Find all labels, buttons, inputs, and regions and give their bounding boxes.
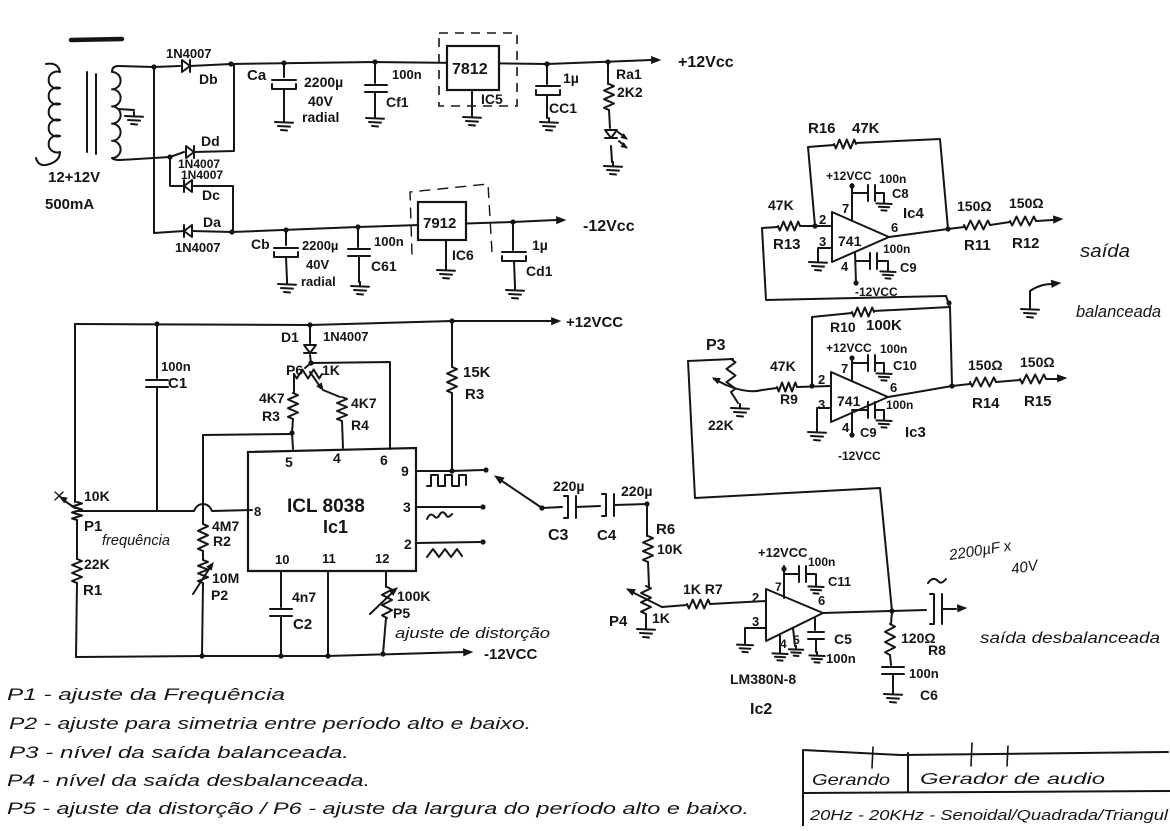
node +12 Ic2 [781, 566, 786, 571]
svg-text:P4: P4 [609, 613, 628, 630]
pin12 label [375, 551, 389, 566]
svg-text:IC6: IC6 [452, 247, 474, 263]
svg-text:-12VCC: -12VCC [484, 646, 538, 663]
capacitor C9 (Ic4) [870, 253, 877, 269]
label LM380N-8 [730, 671, 796, 687]
wire Da to -node [192, 231, 232, 232]
wire R1 to rail [76, 583, 77, 657]
svg-text:-12VCC: -12VCC [838, 449, 881, 463]
ground Cf1 [366, 114, 384, 127]
label 7812 [452, 61, 488, 78]
node +12 Ic3 [849, 355, 854, 360]
label 100n (C9) [883, 242, 910, 256]
label +12VCC (Ic3) [826, 341, 872, 355]
svg-text:C2: C2 [293, 616, 312, 633]
node contact sine [480, 504, 485, 509]
label P1 [84, 518, 102, 535]
wire pin7 +12 (Ic4) [851, 184, 853, 221]
label 1K (P4) [652, 610, 670, 626]
note line P1 [7, 685, 285, 704]
svg-text:40V: 40V [306, 257, 329, 272]
svg-text:P5 - ajuste da distorção / P: P5 - ajuste da distorção / P6 - ajuste d… [7, 799, 749, 818]
svg-text:P5: P5 [393, 605, 410, 621]
diode Db [182, 60, 190, 72]
label R10 [830, 319, 856, 335]
svg-text:R4: R4 [351, 417, 369, 433]
capacitor C1 [146, 324, 168, 511]
label 220u (C4) [621, 483, 652, 499]
label C3 [548, 527, 569, 544]
resistor R3b 15K [447, 321, 457, 471]
wire P4 to ground [645, 614, 647, 625]
resistor R1 [72, 559, 82, 583]
svg-text:4: 4 [841, 259, 849, 274]
label 1N4007 (Db) [166, 46, 212, 61]
svg-text:100K: 100K [397, 588, 430, 604]
arrow +12VCC osc [552, 318, 560, 325]
svg-text:15K: 15K [463, 364, 491, 381]
svg-text:2200µ: 2200µ [304, 74, 343, 90]
svg-text:R15: R15 [1024, 393, 1052, 410]
triangle glyph [427, 549, 462, 557]
svg-text:R14: R14 [972, 395, 1000, 412]
label 2K2 [617, 84, 643, 100]
svg-text:Cd1: Cd1 [526, 263, 553, 279]
label 100n (C6) [909, 666, 939, 681]
switch lever [495, 476, 542, 508]
wire P2 to rail [202, 583, 203, 656]
label 7912 [423, 215, 456, 232]
label 1N4007 (Da) [175, 240, 221, 255]
pin6 label (Ic2) [818, 593, 825, 608]
wire pin9 to contact [452, 470, 483, 471]
svg-text:P3: P3 [706, 337, 726, 354]
label 100n (C10) [880, 342, 907, 356]
svg-text:7: 7 [842, 201, 849, 216]
svg-text:100n: 100n [879, 172, 906, 186]
capacitor C61 [348, 227, 370, 282]
resistor R3a 4K7 [288, 393, 298, 419]
wire pin9 [416, 470, 452, 472]
wire pin4 -12 (Ic4) [855, 252, 856, 283]
svg-text:Cb: Cb [251, 236, 270, 252]
wire to Dd [170, 152, 184, 157]
resistor R9 [777, 383, 797, 392]
resistor R14 [952, 378, 1020, 387]
potentiometer P4 [627, 586, 662, 614]
wire to C10 [852, 362, 868, 364]
wire down left column [153, 67, 155, 233]
svg-text:4K7: 4K7 [259, 390, 285, 406]
svg-text:100n: 100n [909, 666, 939, 681]
ground pin3 Ic3 [808, 428, 826, 441]
wire P1 wiper to pin8 [77, 504, 252, 511]
ground C9b [875, 410, 892, 428]
wire +12V rail [231, 60, 652, 64]
label C2 [293, 616, 312, 633]
regulator 7812 IC5 box [447, 46, 499, 90]
wire R2 col [202, 435, 204, 524]
svg-text:2: 2 [818, 372, 825, 387]
ground Ca [275, 118, 293, 131]
wire pin3 Ic4 to ground [818, 248, 832, 258]
svg-text:2K2: 2K2 [617, 84, 643, 100]
label 100n (C1) [161, 359, 191, 374]
ground Cd1 [506, 286, 524, 299]
svg-text:6: 6 [818, 593, 825, 608]
ground C5 [809, 652, 824, 663]
svg-text:3: 3 [403, 499, 411, 515]
svg-text:7812: 7812 [452, 61, 488, 78]
svg-text:Dd: Dd [201, 133, 220, 149]
wire to C9a [856, 260, 870, 262]
svg-text:4M7: 4M7 [212, 518, 239, 534]
svg-text:1N4007: 1N4007 [323, 329, 369, 344]
svg-text:150Ω: 150Ω [1020, 354, 1055, 370]
label frequencia [102, 532, 170, 549]
label Ic3 [905, 424, 926, 441]
ground C6 [884, 690, 902, 703]
svg-text:2: 2 [819, 212, 826, 227]
label 2200u (Cb) [302, 238, 338, 253]
svg-text:Ic1: Ic1 [323, 517, 348, 537]
potentiometer P2 [193, 560, 213, 594]
label C4 [597, 527, 617, 544]
svg-text:R2: R2 [213, 533, 231, 549]
svg-text:20Hz - 20KHz - Senoidal/Quadra: 20Hz - 20KHz - Senoidal/Quadrada/Triangu… [809, 807, 1169, 824]
squiggle mark [928, 579, 946, 583]
potentiometer P5 [370, 571, 397, 654]
svg-text:10K: 10K [84, 488, 110, 504]
pin2 label [404, 536, 412, 552]
resistor R7 1K [687, 600, 766, 609]
label 1N4007 (Dc) [181, 168, 223, 182]
svg-text:CC1: CC1 [549, 100, 577, 116]
resistor R16 [834, 140, 856, 149]
label C1 [168, 375, 187, 392]
wire output Ic3 [888, 386, 952, 397]
dashed outline IC5 [439, 33, 517, 106]
wire junction to pin5 [292, 433, 293, 449]
label C10 [893, 358, 917, 373]
svg-text:-12VCC: -12VCC [855, 285, 898, 299]
svg-text:4K7: 4K7 [351, 395, 377, 411]
node Ic2 out [889, 608, 894, 613]
ground P3 [731, 404, 749, 417]
svg-text:1K: 1K [322, 362, 340, 378]
pin 3 label (Ic4) [819, 234, 826, 249]
potentiometer P1 [55, 492, 82, 520]
svg-text:47K: 47K [852, 120, 880, 137]
note line P4 [7, 771, 370, 790]
node rail p11 [325, 653, 330, 658]
label 22K (P3) [708, 417, 734, 433]
wire Dc to -column [192, 186, 233, 232]
label +12VCC (Ic2) [758, 545, 808, 560]
capacitor C11 [799, 566, 806, 582]
label C61 [371, 258, 397, 274]
svg-text:saída: saída [1080, 241, 1130, 261]
node P6 top [308, 360, 313, 365]
svg-text:+12VCC: +12VCC [566, 314, 623, 331]
svg-text:Da: Da [203, 214, 221, 230]
label R2 [213, 533, 231, 549]
svg-text:ICL 8038: ICL 8038 [287, 496, 365, 517]
pin7 label (Ic2) [775, 580, 782, 594]
svg-text:100n: 100n [392, 67, 422, 82]
wire rail to P1 [74, 324, 76, 502]
svg-text:150Ω: 150Ω [957, 198, 992, 214]
label 150R (R14) [968, 357, 1003, 373]
svg-text:1N4007: 1N4007 [181, 168, 223, 182]
svg-text:+12VCC: +12VCC [758, 545, 808, 560]
ground P4 [637, 625, 655, 638]
arrow saida- [1058, 375, 1067, 382]
svg-text:Gerador de audio: Gerador de audio [920, 771, 1105, 788]
svg-text:C3: C3 [548, 527, 569, 544]
pin 4 label (Ic3) [842, 420, 850, 435]
svg-text:100n: 100n [161, 359, 191, 374]
svg-text:radial: radial [302, 109, 339, 125]
label saida [1080, 241, 1130, 261]
svg-text:9: 9 [401, 463, 409, 479]
ground balanced out [1021, 280, 1060, 317]
svg-text:1µ: 1µ [563, 70, 579, 86]
svg-text:150Ω: 150Ω [968, 357, 1003, 373]
label R11 [964, 237, 991, 254]
label C11 [828, 574, 851, 589]
label R12 [1012, 235, 1040, 252]
arrow -12Vcc [557, 217, 565, 224]
label 150R (R11) [957, 198, 992, 214]
svg-text:P1: P1 [84, 518, 102, 535]
node loop joint [946, 300, 951, 305]
svg-text:C10: C10 [893, 358, 917, 373]
label ajuste de distorcao [395, 625, 550, 642]
label R8 [928, 642, 946, 658]
wire -12VCC rail (osc) [76, 652, 464, 657]
label 15K (R3b) [463, 364, 491, 381]
svg-text:741: 741 [838, 233, 862, 249]
label Dc [202, 187, 220, 203]
svg-text:+12Vcc: +12Vcc [678, 54, 734, 71]
pin9 label [401, 463, 409, 479]
label +12Vcc [678, 54, 734, 71]
label 100K (P5) [397, 588, 430, 604]
wire to Db [154, 66, 180, 67]
label 220u (C3) [553, 478, 584, 494]
svg-text:frequência: frequência [102, 532, 170, 549]
node secondary bottom [167, 154, 172, 159]
ground pin5 Ic2 [789, 646, 803, 656]
note line P5 [7, 799, 749, 818]
pin 6 label (Ic3) [890, 380, 897, 395]
label Cb [251, 236, 270, 252]
node pin2 Ic4 [812, 223, 817, 228]
label R6 [656, 521, 675, 538]
svg-text:7: 7 [775, 580, 782, 594]
label 100K (R10) [866, 317, 902, 334]
svg-text:6: 6 [890, 380, 897, 395]
capacitor C5 [808, 617, 824, 652]
svg-text:R13: R13 [773, 236, 801, 253]
wire pin4 -12 (Ic3) [851, 412, 853, 435]
sine glyph [427, 512, 452, 519]
svg-text:Ra1: Ra1 [616, 66, 642, 82]
wire Ic2 out [823, 610, 926, 613]
svg-text:1µ: 1µ [532, 237, 548, 253]
table cell Gerando [812, 772, 890, 789]
label Da [203, 214, 221, 230]
capacitor Cout 2200uF [930, 594, 956, 624]
wire P3 wiper to R9 [726, 385, 777, 391]
label 47K (R9) [770, 358, 796, 374]
ground pin3 Ic2 [737, 641, 753, 652]
svg-text:-12Vcc: -12Vcc [583, 218, 635, 235]
Ic4 label [903, 205, 925, 222]
capacitor Ca [272, 63, 296, 118]
node rail P5 [380, 651, 385, 656]
label saida desbalanceada [980, 630, 1160, 647]
svg-text:ajuste de distorção: ajuste de distorção [395, 625, 550, 642]
label 100n (C9b) [886, 398, 913, 412]
label ICL 8038 [287, 496, 365, 517]
label P4 [609, 613, 628, 630]
pin10 label [275, 552, 289, 567]
svg-text:22K: 22K [708, 417, 734, 433]
wire Db to +node [190, 64, 231, 66]
ground pin3 Ic4 [809, 258, 827, 271]
svg-text:500mA: 500mA [45, 196, 94, 213]
pin 2 label (Ic4) [819, 212, 826, 227]
node contact tri [480, 539, 485, 544]
node pin9 15K [449, 468, 454, 473]
note line P3 [9, 743, 349, 762]
node Cf1 [372, 59, 377, 64]
label P2 [211, 587, 228, 603]
capacitor Cf1 [365, 62, 387, 114]
center tap wire [118, 109, 134, 110]
label C8 [892, 186, 909, 201]
capacitor C4 220u [602, 494, 647, 516]
label 2200u (Ca) [304, 74, 343, 90]
node - rectifier [229, 229, 234, 234]
wire node to Dc [170, 157, 184, 186]
svg-text:P3 - nível da saída bal: P3 - nível da saída balanceada. [9, 743, 349, 762]
label IC5 [481, 91, 503, 107]
label 4K7 (R3a) [259, 390, 285, 406]
pin3 label [403, 499, 411, 515]
pin4 label [333, 450, 341, 466]
svg-text:12+12V: 12+12V [48, 169, 100, 186]
svg-text:47K: 47K [768, 197, 794, 213]
label 1N4007 (D1) [323, 329, 369, 344]
svg-text:R9: R9 [780, 391, 798, 407]
label 10K (P1) [84, 488, 110, 504]
svg-text:741: 741 [837, 393, 861, 409]
label -12VCC (Ic4) [855, 285, 898, 299]
label 40V (Cb) [306, 257, 329, 272]
wire junction to R2 col [203, 434, 292, 435]
wire feedback loop Ic3 [812, 307, 950, 385]
pin 2 label (Ic3) [818, 372, 825, 387]
label R9 [780, 391, 798, 407]
svg-text:4: 4 [333, 450, 341, 466]
wire Dd to column [194, 64, 234, 152]
pin 3 label (Ic3) [818, 397, 825, 412]
label Cd1 [526, 263, 553, 279]
node rail C2 [278, 653, 283, 658]
svg-text:+12VCC: +12VCC [826, 341, 872, 355]
svg-text:C8: C8 [892, 186, 909, 201]
regulator 7912 IC6 box [418, 202, 466, 240]
svg-text:R11: R11 [964, 237, 991, 254]
label -12VCC (Ic3) [838, 449, 881, 463]
pin4 label (Ic2) [780, 637, 787, 651]
wire C4 to R6 [646, 504, 648, 536]
svg-text:3: 3 [819, 234, 826, 249]
label R3a [262, 408, 280, 424]
label 40V (out) [1010, 557, 1041, 578]
svg-text:100n: 100n [374, 234, 404, 249]
svg-text:C4: C4 [597, 527, 617, 544]
pin 7 label (Ic4) [842, 201, 849, 216]
pin 4 label (Ic4) [841, 259, 849, 274]
arrow -12VCC osc [464, 649, 473, 656]
label 4K7 (R4) [351, 395, 377, 411]
tick mark 1 [872, 747, 873, 768]
transformer label 500mA [45, 196, 94, 213]
label 1u (Cd1) [532, 237, 548, 253]
label 100n (C8) [879, 172, 906, 186]
svg-text:100K: 100K [866, 317, 902, 334]
svg-text:C61: C61 [371, 258, 397, 274]
label R1 [83, 582, 102, 599]
svg-text:100n: 100n [880, 342, 907, 356]
label Cf1 [386, 94, 409, 110]
svg-text:Gerando: Gerando [812, 772, 890, 789]
svg-text:2: 2 [752, 590, 759, 605]
tick mark 2 [971, 743, 972, 766]
resistor R11 [948, 221, 1010, 230]
svg-text:7912: 7912 [423, 215, 456, 232]
label C6 [920, 687, 938, 703]
label CC1 [549, 100, 577, 116]
svg-text:1N4007: 1N4007 [175, 240, 221, 255]
thick mark [71, 39, 122, 40]
label 22K (R1) [84, 556, 110, 572]
capacitor Cb [274, 230, 298, 280]
svg-text:1K: 1K [652, 610, 670, 626]
svg-text:12: 12 [375, 551, 389, 566]
capacitor C6 [882, 667, 904, 690]
node CC1 [544, 61, 549, 66]
label 10M (P2) [212, 570, 239, 586]
svg-text:P1 - ajuste da Frequênci: P1 - ajuste da Frequência [7, 685, 285, 704]
label R4 [351, 417, 369, 433]
op-amp U-Ic3 741 [831, 372, 888, 422]
label D1 [281, 329, 299, 345]
label Ra1 [616, 66, 642, 82]
label C9 [900, 260, 917, 275]
node Cb [283, 227, 288, 232]
ground IC6 [437, 240, 455, 279]
node output Ic4 [945, 226, 950, 231]
svg-text:100n: 100n [826, 651, 856, 666]
wire pin4 gnd [779, 634, 781, 650]
wire input Ic4 [762, 227, 778, 228]
pin5 label (Ic2) [793, 633, 800, 647]
